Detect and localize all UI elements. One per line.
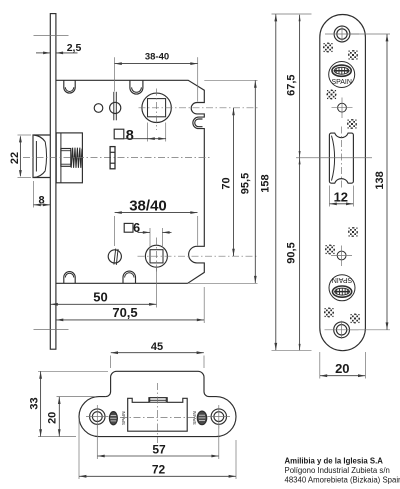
latch spring: [71, 148, 82, 168]
svg-text:72: 72: [152, 463, 166, 477]
upper follower hole: [142, 93, 171, 122]
dimension 22: [9, 135, 31, 178]
upper threaded hole: [110, 92, 121, 121]
bottom view screw hole left: [86, 405, 109, 429]
screw position mark bottom (side view): [34, 329, 69, 331]
dimension 70,5: [56, 287, 204, 323]
dimension 95,5: [240, 81, 257, 284]
svg-text:158: 158: [260, 174, 272, 192]
dimension 72: [79, 420, 236, 479]
punch mark 1: [323, 43, 333, 53]
dimension 12: [329, 186, 353, 207]
latch window centerlines: [296, 127, 372, 190]
guide link bar: [110, 147, 115, 169]
upper follower centerlines: [139, 89, 258, 131]
logo stamp bottom: [329, 275, 355, 301]
svg-text:SPAIN: SPAIN: [121, 411, 126, 424]
punch mark 2: [348, 50, 358, 60]
punch mark 5: [348, 227, 358, 237]
svg-text:48340 Amorebieta (Bizkaia) Spa: 48340 Amorebieta (Bizkaia) Spain: [285, 475, 400, 484]
top screw hole: [325, 25, 359, 43]
svg-text:20: 20: [335, 361, 349, 376]
svg-text:90,5: 90,5: [285, 242, 297, 263]
svg-text:Amilibia y de la Iglesia S.A: Amilibia y de la Iglesia S.A: [285, 456, 384, 465]
svg-text:22: 22: [9, 152, 21, 164]
latch window: [329, 133, 353, 183]
svg-text:70,5: 70,5: [112, 305, 137, 320]
punch mark 4: [347, 119, 357, 129]
dimension 38/40: [114, 197, 197, 246]
svg-text:38/40: 38/40: [129, 197, 167, 214]
bottom view screw hole right: [208, 405, 231, 429]
dimension 38-40: [114, 52, 197, 102]
svg-text:2,5: 2,5: [67, 42, 82, 54]
punch mark 8: [350, 314, 360, 324]
svg-text:33: 33: [28, 397, 40, 409]
bottom tab arch 2: [123, 271, 136, 283]
svg-text:57: 57: [152, 443, 166, 457]
dimension 2,5: [36, 42, 81, 54]
svg-text:70: 70: [221, 177, 233, 189]
svg-text:12: 12: [334, 190, 348, 205]
top screw hole extension: [351, 33, 391, 35]
dimension 158: [260, 14, 312, 350]
pin hole bottom: [331, 246, 352, 267]
bottom tab arch 1: [64, 272, 75, 284]
dimension 138: [374, 34, 388, 329]
body top edge extension: [204, 79, 257, 81]
dimension square-8: [114, 123, 166, 144]
lower follower centerlines: [138, 238, 258, 273]
dimension 70: [221, 108, 235, 256]
bottom screw hole extension: [350, 329, 390, 331]
manufacturer address: [285, 456, 400, 484]
dimension 57: [97, 425, 219, 459]
dimension 20 bottom: [47, 397, 96, 437]
dimension 90,5: [285, 158, 300, 351]
pin hole top: [332, 98, 353, 119]
punch mark 7: [324, 308, 334, 318]
dimension 45: [111, 341, 204, 368]
spring clip inner arc (right edge): [195, 119, 203, 127]
punch mark 3: [327, 90, 337, 100]
dimension 33: [28, 371, 108, 436]
svg-text:45: 45: [151, 341, 163, 353]
lock body outline: [56, 80, 204, 283]
svg-text:SPAIN: SPAIN: [192, 411, 197, 424]
svg-text:SPAIN: SPAIN: [332, 276, 353, 283]
svg-text:50: 50: [93, 290, 107, 305]
top tab hook 1: [64, 80, 75, 93]
svg-text:Polígono Industrial Zubieta s/: Polígono Industrial Zubieta s/n: [285, 466, 390, 475]
latch bolt head: [33, 135, 50, 178]
stamp oval right: [192, 411, 207, 425]
bottom view lock case: [128, 398, 188, 432]
faceplate front view: [320, 14, 366, 350]
svg-text:SPAIN: SPAIN: [331, 79, 352, 86]
svg-text:67,5: 67,5: [285, 74, 297, 95]
bottom view centerlines: [120, 383, 195, 443]
svg-text:8: 8: [126, 128, 134, 144]
dimension 20 faceplate: [320, 352, 366, 379]
svg-text:95,5: 95,5: [240, 173, 252, 194]
svg-text:6: 6: [133, 221, 140, 235]
dimension 67,5: [285, 15, 300, 158]
punch mark 6: [325, 245, 335, 255]
dimension 50: [51, 268, 157, 308]
body bottom edge extension: [188, 282, 258, 284]
faceplate side view: [50, 14, 56, 350]
svg-text:138: 138: [374, 171, 386, 189]
latch spindle: [61, 149, 71, 167]
latch centerline: [23, 157, 212, 159]
bottom view outline: [79, 371, 236, 436]
logo stamp top: [329, 62, 355, 88]
svg-text:38-40: 38-40: [145, 52, 169, 63]
dimension square-6: [124, 221, 171, 248]
top tab hook 2: [130, 80, 143, 94]
stamp oval left: [109, 411, 125, 424]
bottom screw hole: [325, 321, 359, 339]
svg-text:20: 20: [47, 412, 59, 424]
lower threaded hole: [108, 249, 121, 265]
lower follower hole: [145, 245, 167, 267]
dimension 8: [33, 181, 50, 208]
upper small hole: [94, 104, 103, 113]
latch housing: [56, 133, 82, 183]
screw position mark top (side view): [34, 34, 69, 36]
